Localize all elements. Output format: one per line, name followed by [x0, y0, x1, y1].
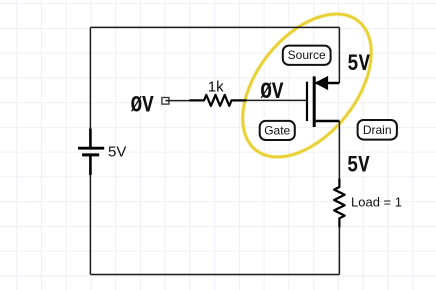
svg-text:Drain: Drain — [363, 123, 392, 137]
svg-text:1k: 1k — [208, 79, 224, 96]
wire: top horizontal from V+ to source branch — [90, 26, 339, 28]
wire: right vertical down to MOSFET source — [338, 27, 340, 83]
callout box Gate — [260, 121, 295, 140]
wire: resistor R1 to MOSFET gate — [246, 99, 306, 101]
svg-text:Load = 1: Load = 1 — [351, 194, 402, 209]
drain stub — [316, 120, 340, 122]
gate bar — [306, 82, 308, 121]
resistor R1 value label 1k — [208, 79, 224, 96]
wire: bottom horizontal rail — [90, 274, 339, 276]
resistor R2 value label Load = 1 — [351, 194, 402, 209]
resistor R2 load — [334, 179, 345, 227]
label 0V at gate — [260, 80, 284, 106]
svg-text:ØV: ØV — [131, 93, 155, 119]
source stub — [316, 82, 340, 84]
svg-text:ØV: ØV — [260, 80, 284, 106]
callout box Source — [283, 46, 331, 65]
label 0V at input terminal — [131, 93, 155, 119]
callout box Drain — [358, 120, 397, 140]
transistor Q1 PMOS — [307, 76, 339, 127]
svg-text:5V: 5V — [108, 143, 126, 160]
label 5V at source — [347, 52, 370, 78]
svg-text:Source: Source — [288, 48, 326, 62]
wire: left vertical bottom (battery to bottom rail) — [89, 175, 91, 275]
node: open input terminal square (0V source) — [162, 98, 169, 105]
svg-text:5V: 5V — [347, 154, 370, 180]
channel bar — [313, 76, 316, 127]
svg-text:5V: 5V — [347, 52, 370, 78]
yellow highlight ellipse around transistor — [217, 0, 397, 181]
source arrow (points into channel: p-channel) — [316, 77, 328, 90]
wire: load resistor to bottom rail — [338, 227, 340, 275]
battery B1 5V — [78, 129, 104, 176]
wire: MOSFET drain down to load resistor — [338, 121, 340, 180]
label 5V at drain — [347, 154, 370, 180]
svg-text:Gate: Gate — [264, 123, 290, 137]
wire: left vertical top (V+ to battery) — [89, 27, 91, 129]
wire: input terminal to resistor R1 — [165, 100, 191, 102]
resistor R1 1k — [190, 95, 246, 106]
battery value label 5V — [108, 143, 126, 160]
